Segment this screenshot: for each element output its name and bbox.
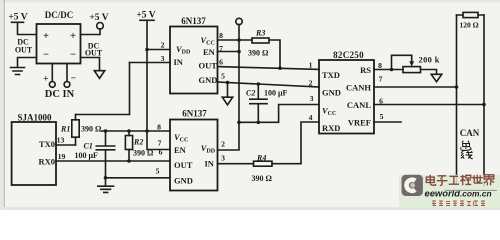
wire R4 to 82C250 RXD pin4 [272, 122, 319, 164]
svg-text:3: 3 [310, 94, 314, 103]
ground (open triangle under opto1 GND) [222, 83, 232, 105]
wire VCC2 to 82C250 VCC pin3 [239, 105, 319, 123]
wire R1 top to opto1 IN pin3 [76, 63, 130, 115]
DC/DC converter [37, 10, 81, 64]
optocoupler U1 6N137 (top) [170, 16, 218, 93]
wire TX0 [56, 144, 76, 146]
resistor R4 390ohm [252, 154, 273, 183]
svg-text:13: 13 [57, 136, 65, 145]
CAN bus line left [456, 15, 458, 183]
svg-text:390 Ω: 390 Ω [81, 125, 102, 134]
wire VCC2 vertical [218, 24, 240, 150]
wire RX0 to opto2 OUT [56, 160, 170, 162]
Chinese character 线 (of CAN bus label) [461, 151, 473, 159]
svg-text:EN: EN [203, 47, 216, 57]
svg-text:GND: GND [322, 88, 341, 98]
svg-text:120 Ω: 120 Ω [460, 20, 479, 29]
svg-text:eeworld.com.cn: eeworld.com.cn [425, 187, 492, 198]
wire R3 to TXD line [269, 40, 280, 68]
svg-text:2: 2 [161, 41, 165, 50]
svg-text:2: 2 [309, 78, 313, 87]
界 [484, 175, 494, 186]
wire pin3 [130, 62, 171, 64]
svg-text:C1: C1 [84, 141, 93, 150]
SJA1000 CAN controller [12, 113, 56, 185]
svg-text:+: + [43, 75, 48, 85]
电 [426, 175, 435, 185]
capacitor C1 100uF [75, 131, 115, 178]
svg-text:5: 5 [380, 112, 384, 121]
+5V supply middle [136, 11, 155, 21]
+5V supply left [8, 13, 36, 35]
wire GND line opto2 [106, 177, 171, 179]
watermark small red slogan [432, 201, 485, 206]
svg-text:3: 3 [161, 54, 165, 63]
optocoupler U2 6N137 (bottom) [170, 108, 218, 190]
svg-text:100 μF: 100 μF [264, 88, 288, 97]
wire RS to potentiometer [374, 69, 403, 71]
svg-text:EN: EN [174, 145, 187, 155]
watermark strike line [445, 189, 497, 191]
potentiometer 200k [392, 55, 440, 72]
svg-text:3: 3 [221, 154, 225, 163]
svg-text:5: 5 [156, 167, 160, 176]
svg-text:RX0: RX0 [38, 156, 55, 166]
svg-text:+5 V: +5 V [136, 11, 155, 21]
svg-text:+: + [70, 31, 76, 42]
svg-text:IN: IN [205, 159, 215, 169]
svg-text:4: 4 [309, 113, 313, 122]
Chinese character 总 (of CAN bus label) [460, 141, 471, 151]
svg-text:8: 8 [219, 31, 223, 40]
wire pin8 to R3 [218, 39, 253, 41]
svg-text:C2: C2 [246, 88, 255, 97]
resistor R3 390ohm [248, 29, 269, 58]
svg-text:GND: GND [174, 176, 193, 186]
wire +5V rail down to EN of opto2 [147, 20, 170, 149]
svg-text:CANH: CANH [346, 83, 371, 93]
wire pin3 opto2 to R4 [218, 163, 254, 165]
svg-text:+: + [43, 31, 49, 42]
svg-text:82C250: 82C250 [333, 50, 364, 60]
ground (left, earth) [11, 58, 37, 75]
svg-text:OUT: OUT [15, 46, 33, 55]
svg-text:6N137: 6N137 [182, 108, 207, 118]
ground (earth under C1) [98, 178, 114, 193]
svg-text:R2: R2 [133, 137, 143, 146]
wire CANL to bus [374, 104, 484, 106]
svg-text:+5 V: +5 V [8, 13, 27, 23]
svg-text:7: 7 [158, 139, 162, 148]
svg-text:1: 1 [309, 60, 313, 69]
svg-text:2: 2 [221, 139, 225, 148]
svg-text:OUT: OUT [85, 49, 103, 58]
watermark logo eeworld [402, 175, 423, 196]
svg-text:5: 5 [221, 71, 225, 80]
CAN bus line right [483, 15, 485, 186]
svg-text:390 Ω: 390 Ω [248, 49, 269, 58]
svg-text:390 Ω: 390 Ω [133, 148, 154, 157]
svg-text:OUT: OUT [199, 61, 218, 71]
wire EN pin7 to VCC2 [218, 51, 240, 53]
transceiver U3 82C250 [319, 50, 374, 134]
svg-text:+5 V: +5 V [89, 13, 108, 23]
ground (open triangle right) [431, 74, 442, 81]
svg-text:R1: R1 [60, 124, 70, 133]
svg-text:CAN: CAN [460, 128, 480, 138]
resistor R2 390ohm [125, 131, 154, 161]
svg-text:8: 8 [157, 123, 161, 132]
svg-text:OUT: OUT [174, 160, 193, 170]
svg-text:6N137: 6N137 [181, 16, 206, 26]
resistor 120ohm terminator [457, 12, 485, 29]
watermark green panel [399, 175, 500, 208]
wire +5V to pin2 [147, 49, 170, 51]
svg-text:RS: RS [360, 65, 371, 75]
svg-text:100 μF: 100 μF [75, 151, 99, 160]
svg-text:TXD: TXD [322, 70, 340, 80]
svg-text:6: 6 [159, 147, 163, 156]
wire CANH to bus [374, 86, 457, 88]
isolated ground (open triangle, right of DC/DC) [81, 58, 105, 79]
svg-text:19: 19 [58, 152, 66, 161]
svg-text:GND: GND [199, 75, 218, 85]
wire VREF (open) [374, 121, 401, 123]
svg-text:6: 6 [219, 57, 223, 66]
svg-text:CANL: CANL [347, 100, 371, 110]
watermark text 电子工程世界 (drawn strokes) [426, 175, 494, 186]
DC IN terminals [43, 64, 76, 101]
+5V supply right of DC/DC with terminal circle [81, 13, 109, 35]
svg-text:200 k: 200 k [419, 55, 440, 64]
svg-text:R3: R3 [255, 29, 265, 38]
svg-text:DC/DC: DC/DC [45, 10, 74, 20]
svg-text:8: 8 [378, 61, 382, 70]
svg-text:7: 7 [379, 74, 383, 83]
svg-text:390 Ω: 390 Ω [252, 174, 273, 183]
svg-text:TX0: TX0 [39, 139, 55, 149]
node VCC2 terminal circle [236, 18, 242, 24]
世 [472, 175, 483, 183]
svg-text:DC IN: DC IN [45, 89, 75, 100]
svg-text:−: − [43, 50, 49, 61]
wire VCC line opto2 [102, 130, 171, 132]
wire pot to ground [421, 70, 437, 75]
svg-text:RXD: RXD [322, 123, 340, 133]
工 [449, 176, 459, 184]
程 [460, 175, 471, 185]
capacitor C2 100uF [246, 84, 288, 122]
resistor R1 390ohm [60, 115, 102, 146]
svg-text:VREF: VREF [348, 118, 371, 128]
wire GND pin5 to 82C250 GND [218, 82, 320, 87]
子 [437, 176, 448, 186]
svg-text:−: − [71, 74, 76, 84]
wire OUT pin6 to TXD [218, 67, 320, 70]
svg-text:−: − [70, 50, 76, 61]
svg-text:IN: IN [174, 57, 184, 67]
